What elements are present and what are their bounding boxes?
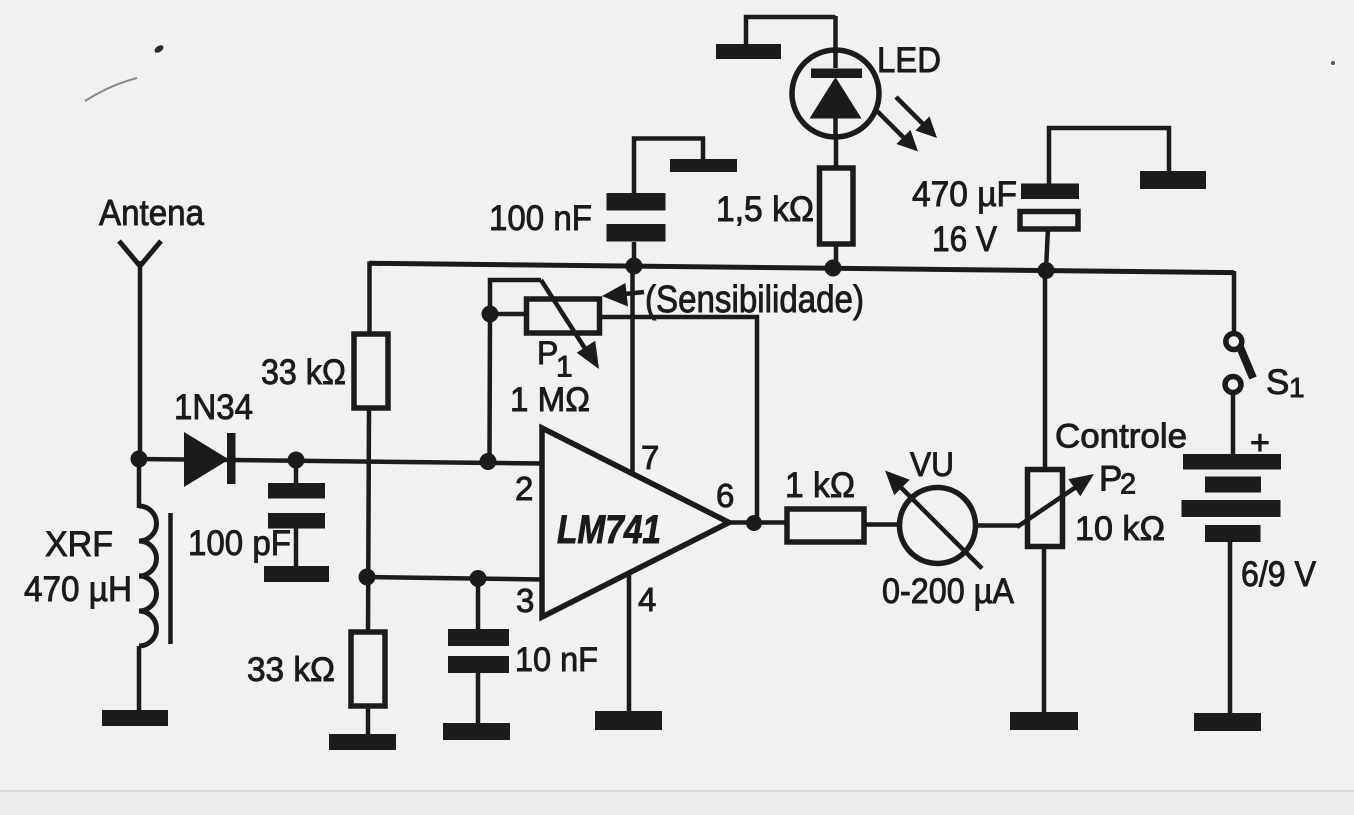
resistor R4 1.5k: [820, 139, 854, 268]
node pin2/P1 junction: [480, 453, 497, 470]
ground for battery: [1194, 713, 1261, 731]
node divider junction: [359, 569, 376, 586]
antenna symbol: [119, 241, 161, 460]
svg-text:0-200 µA: 0-200 µA: [882, 572, 1015, 611]
node V+ at 100nF/pin7: [626, 258, 643, 275]
resistor R2 33k lower: [351, 632, 385, 706]
ground for antenna coil: [102, 710, 168, 726]
switch S1: [1225, 271, 1253, 455]
node P1 left terminal: [482, 306, 499, 323]
node V+ at 1.5k branch: [825, 260, 842, 277]
svg-text:470 µF: 470 µF: [912, 175, 1017, 214]
svg-text:S: S: [1266, 363, 1289, 402]
wire P1 left leg vertical: [487, 314, 492, 461]
ground for pin 4: [595, 711, 662, 730]
svg-text:10 nF: 10 nF: [515, 641, 598, 679]
wire V+ bus: [369, 263, 1234, 272]
ground for 100pF: [264, 566, 329, 582]
svg-text:16 V: 16 V: [932, 220, 998, 259]
node 10nF junction: [470, 570, 487, 587]
svg-text:100 pF: 100 pF: [188, 524, 291, 563]
ground for 100nF: [670, 159, 737, 172]
resistor R3 1k: [787, 509, 864, 542]
svg-text:7: 7: [641, 439, 659, 476]
node output pin 6: [746, 515, 762, 531]
svg-text:10 kΩ: 10 kΩ: [1075, 510, 1165, 548]
battery B1: [1182, 454, 1282, 714]
wire pin 3 line: [367, 577, 543, 580]
capacitor C3 100 nF: [607, 139, 704, 267]
meter M1 VU: [885, 471, 982, 569]
potentiometer P1: [490, 280, 757, 523]
wire 1k to meter: [864, 522, 901, 527]
svg-text:6/9 V: 6/9 V: [1241, 555, 1317, 594]
svg-text:1: 1: [1289, 372, 1305, 403]
LED emission arrows: [878, 97, 938, 152]
svg-text:470 µH: 470 µH: [24, 570, 132, 609]
wire meter to P2 wiper: [975, 523, 1019, 528]
wire between divider resistors: [368, 408, 369, 632]
svg-text:100 nF: 100 nF: [489, 199, 592, 238]
svg-text:VU: VU: [910, 446, 954, 484]
capacitor C2 10 nF: [448, 578, 509, 724]
inductor XRF 470uH: [139, 459, 171, 711]
diode D1 1N34: [184, 432, 236, 487]
ground for 10nF: [443, 723, 510, 740]
svg-text:2: 2: [1120, 469, 1136, 501]
svg-text:3: 3: [516, 582, 534, 619]
svg-text:4: 4: [638, 581, 656, 618]
svg-text:LM741: LM741: [557, 508, 661, 552]
op-amp U1 LM741: [542, 428, 729, 617]
svg-text:33 kΩ: 33 kΩ: [261, 353, 346, 392]
ground for 470uF: [1140, 171, 1206, 189]
node diode/100pF junction: [288, 452, 305, 469]
svg-text:Antena: Antena: [99, 192, 205, 233]
wire pin 4 to ground: [627, 572, 632, 712]
wire signal line node to op-amp pin 2: [139, 459, 543, 464]
wire op-amp output: [729, 520, 787, 525]
ground for P2: [1010, 712, 1078, 730]
svg-text:P: P: [1099, 460, 1122, 499]
svg-text:1: 1: [556, 351, 573, 384]
svg-text:1N34: 1N34: [174, 388, 253, 427]
capacitor C4 470uF: [1020, 128, 1169, 270]
svg-text:XRF: XRF: [45, 525, 113, 564]
svg-text:33 kΩ: 33 kΩ: [247, 651, 335, 689]
wire pin 7: [630, 266, 635, 476]
potentiometer P2: [1017, 270, 1094, 713]
svg-text:LED: LED: [877, 41, 941, 80]
sensibilidade arrow: [602, 283, 644, 307]
ground for LED: [716, 44, 781, 59]
node antenna/diode junction: [131, 451, 148, 468]
svg-text:Controle: Controle: [1055, 418, 1187, 456]
svg-text:1 MΩ: 1 MΩ: [510, 381, 590, 419]
svg-text:(Sensibilidade): (Sensibilidade): [645, 279, 864, 321]
svg-text:6: 6: [716, 477, 734, 514]
svg-text:+: +: [1250, 424, 1270, 462]
capacitor C1 100 pF: [268, 460, 325, 568]
svg-text:1,5 kΩ: 1,5 kΩ: [716, 190, 814, 229]
resistor R1 33k upper: [354, 334, 388, 408]
wire left rail from bus to upper 33k: [367, 262, 372, 335]
ground for lower 33k: [329, 734, 396, 750]
LED D2: [746, 16, 879, 140]
svg-text:1 kΩ: 1 kΩ: [785, 466, 855, 505]
node V+ at 470uF/P2: [1038, 262, 1055, 279]
svg-text:2: 2: [515, 470, 533, 507]
wire lower 33k to ground: [366, 706, 371, 736]
